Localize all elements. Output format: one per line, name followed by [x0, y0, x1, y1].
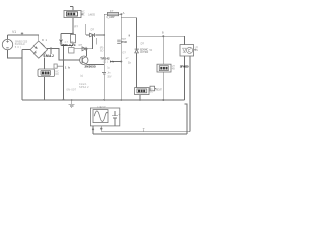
mains sensor box U4	[90, 108, 119, 126]
triac/SCR marks on triac vertical	[117, 40, 121, 43]
wire source top stub	[7, 35, 9, 40]
svg-text:SMAJ: SMAJ	[43, 54, 53, 58]
wire fuse left vertical	[103, 14, 105, 72]
voltage source V1	[2, 39, 12, 49]
svg-text:1k: 1k	[65, 65, 71, 69]
svg-text:B: B	[162, 30, 164, 34]
svg-text:SPKA 2: SPKA 2	[79, 86, 89, 89]
wire sensor left pin	[92, 126, 94, 134]
junction dots	[50, 13, 164, 130]
tiny speck near triac top	[129, 35, 130, 37]
svg-text:1k: 1k	[110, 60, 115, 64]
wire U3 box vertical top	[162, 36, 164, 64]
optocoupler U1	[180, 45, 194, 56]
svg-text:(2): (2)	[103, 61, 109, 64]
svg-text:35V: 35V	[107, 76, 112, 79]
optocoupler U1 transistor marks	[189, 49, 191, 53]
capacitor C1 in sensor box	[112, 111, 118, 126]
svg-text:UFO?: UFO?	[98, 105, 107, 109]
wire collector rail	[74, 48, 92, 50]
svg-text:M.OUT: M.OUT	[155, 87, 162, 91]
ground symbol	[69, 104, 75, 107]
relay K2 box	[135, 88, 149, 95]
svg-text:1N40: 1N40	[62, 43, 68, 47]
wire bridge right to node	[47, 48, 79, 60]
wire top net to optocoupler	[137, 36, 185, 44]
capacitor C2 plates	[102, 71, 106, 73]
diode D4 vertical (flyback)	[60, 40, 63, 43]
wire fuse right to node A	[119, 13, 122, 15]
cap plus mark	[119, 114, 121, 116]
wire opto cathode to rail	[184, 56, 186, 100]
svg-text:4N: 4N	[195, 49, 198, 52]
wire Vcc box top stub	[72, 6, 74, 10]
wire gate resistor run	[110, 61, 121, 63]
svg-text:R?: R?	[74, 25, 78, 29]
transistor Q1 emitter wire	[87, 63, 105, 65]
transistor Q1	[80, 56, 88, 64]
wire sensor right pin	[100, 126, 102, 132]
port flag E	[54, 64, 57, 68]
wire fuse left	[104, 13, 107, 15]
wire net flag Vcc vertical	[85, 24, 87, 35]
optocoupler collector stub	[194, 49, 197, 51]
svg-text:V1: V1	[12, 30, 16, 34]
wire bridge left	[22, 49, 30, 51]
wire U3 box vertical bottom	[162, 72, 164, 100]
bridge rectifier D1 diamond	[30, 41, 47, 58]
diode D2 horizontal near fuse	[90, 33, 95, 37]
svg-text:2N3055: 2N3055	[85, 65, 97, 69]
diode D3 series in collector rail	[82, 47, 86, 51]
wire ground rail	[22, 99, 185, 101]
wire TVS to relay box K1	[44, 58, 46, 70]
node bottom bar of D/R pair	[61, 45, 73, 47]
relay K1 box	[38, 69, 55, 77]
wire zener bottom to relay K2	[136, 53, 138, 88]
svg-text:50): 50)	[15, 45, 21, 49]
net tick on return wire	[143, 129, 145, 132]
zener D5	[135, 49, 139, 53]
wire TVS branch stub	[50, 48, 52, 54]
svg-text:DC: DC	[56, 74, 60, 76]
svg-text:SFH620: SFH620	[180, 64, 189, 68]
svg-text:(c): (c)	[80, 75, 83, 78]
svg-text:1_AMP: 1_AMP	[106, 15, 115, 19]
port flag M	[150, 86, 155, 91]
svg-text:D?: D?	[91, 27, 95, 31]
wire collector drop	[86, 49, 88, 56]
bridge diode marks	[33, 43, 45, 56]
wire feedback vertical	[91, 35, 93, 49]
svg-text:BT136: BT136	[122, 40, 128, 44]
svg-text:4B: 4B	[172, 67, 175, 70]
wire diode D2 left	[86, 34, 90, 36]
svg-text:F?: F?	[110, 9, 114, 13]
svg-text:EC: EC	[81, 13, 85, 16]
svg-text:Jm: Jm	[107, 72, 110, 75]
wire diode leg top	[60, 33, 62, 38]
svg-text:0N-007: 0N-007	[67, 88, 77, 91]
junction jog at rail	[103, 99, 105, 101]
wire triac vertical	[120, 14, 122, 100]
box U2 Vcc supply	[64, 11, 81, 18]
wire zener top	[136, 36, 138, 49]
wire opto emitter down	[189, 56, 191, 132]
wire relay box K1 to rail	[44, 77, 46, 100]
svg-text:D?: D?	[141, 42, 145, 46]
resistor R3 small box	[69, 48, 74, 54]
current probe tick	[21, 32, 23, 35]
wire resistor leg bottom	[72, 43, 74, 46]
stub hook	[70, 5, 73, 7]
wire bottom return lower	[93, 133, 187, 135]
ground stub	[71, 100, 73, 104]
svg-text:4V7 500: 4V7 500	[140, 50, 149, 54]
optocoupler U1 LED	[183, 48, 187, 52]
svg-text:BD: BD	[100, 50, 104, 53]
wire Vcc box bottom	[72, 18, 74, 34]
wire pair to collector rail	[70, 46, 72, 48]
wire Vcc net to diode D2	[81, 13, 84, 15]
wire relay K2 bottom stub	[139, 95, 141, 100]
svg-text:DC: DC	[150, 92, 154, 94]
wire left vertical to ground rail	[21, 50, 23, 100]
svg-text:D1: D1	[42, 38, 47, 42]
svg-text:1u MOS: 1u MOS	[88, 13, 95, 16]
wire diode D2 right	[95, 34, 104, 36]
svg-text:G?: G?	[122, 50, 126, 54]
wire diode leg bottom	[60, 43, 62, 46]
svg-text:A: A	[123, 11, 125, 15]
wire opto pin4 down	[185, 104, 188, 134]
svg-text:4.7k: 4.7k	[69, 43, 76, 47]
resistor R1 vertical box	[71, 34, 76, 42]
fuse F1	[107, 13, 118, 16]
wire top AC line	[8, 35, 39, 41]
wire bottom return upper	[101, 131, 190, 133]
wire stub right of feedback	[95, 38, 97, 45]
wire node A step to zener column	[121, 14, 136, 36]
node top bar of D/R pair	[61, 32, 73, 34]
wire source bottom to left vertical	[8, 50, 23, 58]
wire bias branch long vertical	[63, 46, 65, 100]
svg-text:D?: D?	[79, 43, 83, 47]
IC U3 box	[157, 64, 171, 72]
